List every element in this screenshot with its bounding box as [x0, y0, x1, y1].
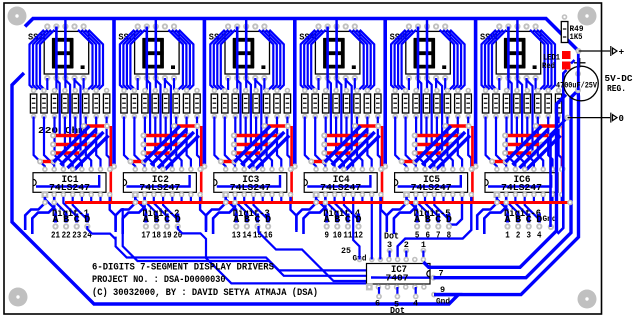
LED1 pad cathode	[562, 62, 571, 70]
pad SS1 top 5	[81, 23, 87, 29]
pad IC1 pin top 6	[88, 167, 94, 173]
svg-text:D: D	[446, 215, 452, 226]
wire resistor to IC	[166, 117, 173, 170]
via	[96, 133, 102, 139]
via red bus	[51, 200, 57, 206]
svg-text:74LS247: 74LS247	[411, 183, 452, 193]
wire resistor to IC	[507, 117, 516, 170]
svg-text:Dot: Dot	[390, 306, 405, 316]
via	[169, 150, 175, 156]
pad SS1 top 1	[44, 23, 50, 29]
pad IC2 pin top 3	[151, 167, 157, 173]
display SS3 digit	[233, 38, 254, 68]
pad SS6 top 2	[505, 23, 511, 29]
wire arc hook block2 to IC7	[178, 226, 367, 283]
pad SS3 bottom 4	[252, 75, 258, 81]
wire left bundle	[123, 30, 137, 90]
via	[548, 133, 554, 139]
via red bus	[42, 200, 48, 206]
via	[442, 123, 448, 129]
pad SS2 top 5	[171, 23, 177, 29]
svg-text:13: 13	[232, 229, 241, 240]
pad resistor R47 bottom	[545, 114, 551, 120]
wire pad drop	[498, 78, 500, 90]
resistor R40	[465, 94, 471, 113]
wire top-layer segment bar	[53, 143, 90, 146]
via	[194, 123, 200, 129]
pad IC2 pin bottom 8	[197, 192, 203, 198]
pad SS5 top 4	[433, 23, 439, 29]
wire right bundle	[530, 30, 545, 90]
pad IC2 pin top 2	[142, 167, 148, 173]
wire diagonal b	[513, 129, 549, 165]
pad resistor R3 bottom	[52, 114, 58, 120]
wire right bundle	[269, 30, 284, 90]
pad Digit-1 C	[74, 223, 80, 229]
wire stub	[470, 197, 472, 201]
wire resistor to IC	[559, 117, 562, 170]
wire through vertical b	[517, 80, 522, 146]
wire right bundle	[172, 30, 187, 90]
pad resistor R13 bottom	[163, 114, 169, 120]
wire segment b	[236, 27, 239, 79]
svg-text:D: D	[175, 215, 181, 226]
wire left bundle	[311, 30, 326, 90]
svg-text:D: D	[536, 215, 542, 226]
wire elbow b	[394, 197, 416, 234]
wire trunk 5	[474, 19, 478, 165]
pad SS4 bottom 4	[343, 75, 349, 81]
pad SS1 top 3	[62, 23, 68, 29]
svg-text:A: A	[324, 215, 330, 226]
wire left bundle	[127, 30, 141, 90]
pad SS1 bottom 5	[81, 75, 87, 81]
wire digit stub	[426, 214, 429, 223]
pad resistor R48 bottom	[556, 114, 562, 120]
wire IC to digit pad	[316, 197, 327, 221]
via	[268, 142, 274, 148]
pad resistor R42 top	[493, 88, 499, 94]
pad IC3 pin top 7	[279, 167, 285, 173]
via	[187, 133, 193, 139]
pad resistor R12 bottom	[153, 114, 159, 120]
via	[533, 123, 539, 129]
wire digit stub	[267, 214, 270, 223]
via red vertical	[198, 166, 204, 172]
wire bus drop	[155, 19, 157, 27]
via red vertical	[470, 166, 476, 172]
wire digit stub	[416, 214, 419, 223]
pad resistor R1 bottom	[31, 114, 37, 120]
wire through IC body	[36, 175, 99, 187]
wire diagonal d	[75, 136, 109, 170]
wire resistor to IC	[468, 117, 471, 170]
wire diagonal b	[332, 129, 368, 165]
via	[51, 159, 57, 165]
via	[321, 150, 327, 156]
pad resistor R37 top	[434, 88, 440, 94]
wire through vertical a	[147, 80, 150, 137]
wire diagonal b	[61, 129, 97, 165]
pad SS4 bottom 5	[352, 75, 358, 81]
wire diagonal c	[248, 132, 284, 168]
pad resistor R17 top	[212, 88, 218, 94]
wire segment c	[426, 27, 429, 79]
wire left bundle	[489, 30, 504, 90]
pad IC2 pin 1 square	[132, 191, 139, 198]
display SS4	[315, 31, 360, 74]
wire right bundle	[259, 30, 274, 90]
wire resistor to IC	[107, 117, 110, 170]
pad SS4 top 2	[325, 23, 331, 29]
pad resistor R15 top	[184, 88, 190, 94]
wire resistor to IC	[246, 117, 254, 170]
resistor R2	[41, 94, 47, 113]
wire through vertical b	[65, 80, 70, 146]
pad IC4 pin bottom 8	[378, 192, 384, 198]
wire corner pad8	[110, 197, 116, 232]
via trunk 3	[292, 164, 298, 170]
wire IC5 pad8 to connector	[398, 197, 472, 260]
pad IC6 pin top 6	[540, 167, 546, 173]
wire diagonal c	[429, 132, 465, 168]
wire right bundle	[537, 30, 552, 90]
via	[277, 133, 283, 139]
via	[231, 133, 237, 139]
pad resistor R35 top	[413, 88, 419, 94]
wire right bundle	[541, 30, 556, 90]
resistor R21	[253, 94, 259, 113]
svg-text:74LS247: 74LS247	[501, 183, 542, 193]
wire segment b	[146, 27, 149, 79]
pad IC4 pin bottom 5	[350, 192, 356, 198]
resistor R14	[173, 94, 179, 113]
svg-text:3: 3	[526, 229, 531, 240]
display SS1	[44, 31, 88, 74]
wire stub	[561, 197, 563, 201]
wire diagonal b	[151, 129, 187, 165]
display SS4 digit	[323, 38, 344, 68]
pad IC1 pin top 8	[107, 167, 113, 173]
wire header stub	[405, 251, 407, 260]
wire through vertical b	[156, 80, 161, 146]
via	[50, 133, 56, 139]
wire stub	[199, 197, 201, 201]
wire elbow b	[304, 197, 326, 234]
pad IC3 pin bottom 8	[288, 192, 294, 198]
svg-text:Gnd: Gnd	[436, 297, 450, 307]
resistor R15	[183, 94, 189, 113]
svg-text:6: 6	[425, 229, 430, 240]
pad resistor R30 top	[354, 88, 360, 94]
wire resistor to IC	[44, 117, 54, 170]
wire left bundle	[40, 30, 55, 90]
via red bus	[232, 200, 238, 206]
via	[260, 150, 266, 156]
wire stub	[81, 197, 83, 201]
pad resistor R9 top	[121, 88, 127, 94]
wire left bundle	[482, 30, 497, 90]
pad IC1 pin bottom 6	[88, 192, 94, 198]
svg-text:10: 10	[333, 229, 342, 240]
wire resistor to IC	[548, 117, 552, 170]
pad 9	[431, 292, 437, 298]
wire pad drop	[73, 78, 75, 90]
resistor R48	[555, 94, 561, 113]
pad SS4 bottom 2	[325, 75, 331, 81]
wire resistor to IC	[315, 117, 325, 170]
via	[285, 123, 291, 129]
pad Digit-1 B	[63, 223, 69, 229]
wire segment c	[155, 27, 158, 79]
wire connector stub	[396, 287, 398, 297]
wire stub	[352, 197, 354, 201]
wire stub	[551, 197, 553, 201]
wire resistor to IC	[287, 117, 290, 170]
wire digit stub	[155, 214, 158, 223]
pad resistor R39 top	[455, 88, 461, 94]
wire IC to digit pad	[407, 197, 418, 221]
wire corner IC5 pad7	[450, 197, 463, 225]
svg-text:18: 18	[152, 229, 161, 240]
pad resistor R10 bottom	[132, 114, 138, 120]
wire elbow a	[116, 197, 136, 230]
wire resistor to IC	[357, 117, 362, 170]
pad IC3 pin top 8	[288, 167, 294, 173]
wire resistor to IC	[155, 117, 163, 170]
pad resistor R41 top	[483, 88, 489, 94]
pad resistor R2 bottom	[41, 114, 47, 120]
wire connector stub	[378, 287, 380, 297]
wire top-layer segment bar	[143, 151, 172, 154]
pad resistor R26 top	[312, 88, 318, 94]
wire top-layer segment bar	[234, 143, 271, 146]
pad SS6 bottom 4	[523, 75, 529, 81]
wire left bundle	[485, 30, 500, 90]
wire left bundle	[217, 30, 232, 90]
svg-text:B: B	[244, 215, 250, 226]
pad IC7 top 3	[378, 257, 384, 263]
pad IC3 pin bottom 3	[241, 192, 247, 198]
via	[262, 123, 268, 129]
wire digit stub	[437, 214, 440, 223]
via	[104, 123, 110, 129]
wire through vertical b	[337, 80, 342, 146]
resistor R20	[243, 94, 249, 113]
pad resistor R28 top	[333, 88, 339, 94]
wire digit stub	[346, 214, 349, 223]
wire resistor to IC	[256, 117, 263, 170]
wire pad drop	[137, 78, 139, 90]
wire bus drop	[516, 19, 518, 27]
wire digit stub	[176, 214, 179, 223]
svg-text:2: 2	[516, 229, 521, 240]
pad Digit-2 D	[175, 223, 181, 229]
wire resistor to IC	[86, 117, 91, 170]
resistor R11	[142, 94, 148, 113]
wire stub	[90, 197, 92, 201]
wire top-layer segment bar	[311, 160, 325, 163]
wire IC to digit pad	[73, 197, 88, 221]
pad SS4 top 1	[315, 23, 321, 29]
pad IC4 pin top 1	[313, 167, 319, 173]
via	[358, 142, 364, 148]
pad IC4 pin bottom 7	[369, 192, 375, 198]
wire through IC body	[398, 175, 461, 187]
wire top-layer segment bar	[536, 124, 559, 127]
wire diagonal a	[234, 126, 270, 162]
via red bus	[223, 200, 229, 206]
via	[441, 150, 447, 156]
terminal +5V	[579, 46, 611, 56]
pad resistor R29 bottom	[344, 114, 350, 120]
wire trunk 4	[383, 19, 387, 165]
wire segment c	[516, 27, 519, 79]
via	[50, 142, 56, 148]
wire IC to digit pad	[497, 197, 508, 221]
wire segment b	[326, 27, 329, 79]
wire right bundle	[443, 30, 458, 90]
wire top-layer segment bar	[174, 124, 197, 127]
wire top-layer segment bar	[143, 143, 180, 146]
svg-text:7407: 7407	[386, 274, 409, 284]
via	[81, 123, 87, 129]
wire resistor to IC	[336, 117, 344, 170]
pad IC7 top 5	[395, 257, 401, 263]
via	[321, 142, 327, 148]
pad IC7 top 6	[403, 257, 409, 263]
via	[412, 150, 418, 156]
pad IC5 pin bottom 4	[432, 192, 438, 198]
wire resistor to IC	[225, 117, 235, 170]
wire right bundle	[356, 30, 371, 90]
pad Digit-5 D	[446, 223, 452, 229]
wire IC to digit pad	[63, 197, 76, 221]
pad SS4 top 5	[352, 23, 358, 29]
wire through vertical b	[246, 80, 251, 146]
svg-text:D: D	[265, 215, 271, 226]
via	[502, 150, 508, 156]
wire right bundle	[262, 30, 277, 90]
wire pad drop	[426, 78, 428, 90]
resistor R39	[455, 94, 461, 113]
pad resistor R5 bottom	[73, 114, 79, 120]
wire through IC body	[488, 175, 551, 187]
wire riser B	[433, 90, 578, 277]
via	[321, 133, 327, 139]
wire resistor to IC	[378, 117, 381, 170]
pad SS3 bottom 5	[261, 75, 267, 81]
resistor R28	[333, 94, 339, 113]
svg-text:4: 4	[413, 299, 418, 309]
pad SS2 top 4	[162, 23, 168, 29]
pad IC3 pin top 2	[232, 167, 238, 173]
svg-text:+: +	[619, 47, 625, 58]
wire digit stub	[538, 214, 541, 223]
pad IC1 pin bottom 5	[79, 192, 85, 198]
wire pad drop	[82, 78, 84, 90]
svg-text:7: 7	[436, 229, 441, 240]
wire digit stub	[527, 214, 530, 223]
pad IC3 pin bottom 4	[251, 192, 257, 198]
pad capacitor +	[575, 71, 581, 77]
wire left bundle	[30, 30, 45, 90]
wire gnd25 rail	[353, 197, 359, 260]
via	[368, 133, 374, 139]
wire stub	[271, 197, 273, 201]
pad SS3 bottom 1	[225, 75, 231, 81]
wire stub	[171, 197, 173, 201]
wire top-layer segment bar	[234, 151, 263, 154]
pad IC7 pin 1 square	[366, 284, 373, 291]
wire through vertical a	[418, 80, 421, 137]
wire pad drop	[254, 78, 256, 90]
svg-text:C: C	[435, 215, 441, 226]
pad IC2 pin bottom 1	[133, 192, 139, 198]
pad IC5 pin top 8	[469, 167, 475, 173]
terminal 0V	[568, 113, 611, 123]
pad resistor R47 top	[545, 88, 551, 94]
resistor R26	[312, 94, 318, 113]
via	[79, 150, 85, 156]
pad Digit-4 B	[334, 223, 340, 229]
wire digit stub	[75, 214, 78, 223]
pad IC5 pin bottom 6	[450, 192, 456, 198]
pad resistor R16 bottom	[194, 114, 200, 120]
pad resistor R3 top	[52, 88, 58, 94]
pad resistor R24 top	[285, 88, 291, 94]
pad IC3 pin bottom 1	[223, 192, 229, 198]
svg-text:8: 8	[447, 229, 452, 240]
wire resistor to IC	[65, 117, 73, 170]
wire top-layer segment bar	[415, 143, 452, 146]
pad resistor R27 bottom	[323, 114, 329, 120]
resistor R41	[482, 94, 488, 113]
via	[232, 159, 238, 165]
pad SS5 bottom 4	[433, 75, 439, 81]
wire elbow b	[32, 197, 54, 234]
wire stub	[542, 197, 544, 201]
wire elbow a	[477, 197, 497, 230]
wire header stub	[422, 251, 424, 260]
pad IC7 bottom 5	[403, 284, 409, 290]
pad Digit-2 B	[153, 223, 159, 229]
wire IC to digit pad	[235, 197, 247, 221]
pad resistor R20 top	[243, 88, 249, 94]
wire resistor to IC	[96, 117, 100, 170]
pad resistor R42 bottom	[493, 114, 499, 120]
via	[448, 142, 454, 148]
resistor R27	[323, 94, 329, 113]
pad IC7 bottom 6	[412, 284, 418, 290]
pad IC1 pin bottom 2	[51, 192, 57, 198]
wire top-layer segment bar	[40, 160, 54, 163]
resistor R44	[514, 94, 520, 113]
via	[322, 159, 328, 165]
pad SS2 top 3	[153, 23, 159, 29]
pad IC5 pin top 5	[441, 167, 447, 173]
pad IC7 bottom 4	[394, 284, 400, 290]
ic IC7 body	[367, 264, 431, 285]
pad IC7 bottom 2	[376, 284, 382, 290]
pad IC3 pin bottom 2	[232, 192, 238, 198]
pad IC6 pin bottom 7	[550, 192, 556, 198]
pad IC6 pin bottom 1	[494, 192, 500, 198]
pad Digit-5 B	[425, 223, 431, 229]
pad resistor R8 top	[104, 88, 110, 94]
wire resistor to IC	[458, 117, 462, 170]
pad IC4 pin bottom 6	[360, 192, 366, 198]
